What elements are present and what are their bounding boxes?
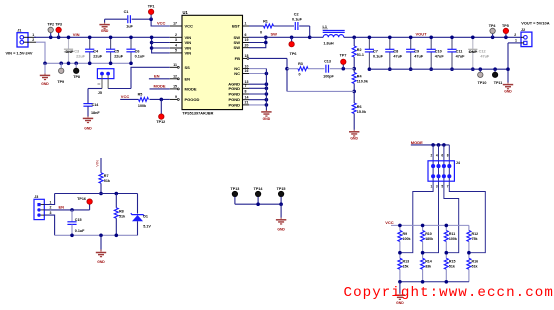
svg-text:2: 2 xyxy=(175,33,177,37)
svg-text:4: 4 xyxy=(436,153,438,157)
svg-text:22uF: 22uF xyxy=(114,54,124,58)
svg-text:R6: R6 xyxy=(357,105,362,109)
svg-text:VIN: VIN xyxy=(95,160,100,167)
svg-text:1: 1 xyxy=(50,200,52,204)
svg-text:PGND: PGND xyxy=(228,102,240,107)
svg-text:51k: 51k xyxy=(119,214,126,218)
svg-text:R2: R2 xyxy=(357,48,362,52)
svg-text:3: 3 xyxy=(50,211,52,215)
svg-text:TP8: TP8 xyxy=(73,75,80,79)
svg-text:3: 3 xyxy=(175,38,177,42)
svg-text:TP1: TP1 xyxy=(148,5,155,9)
svg-text:PGND: PGND xyxy=(228,92,240,97)
svg-text:J2: J2 xyxy=(521,28,525,32)
svg-text:TP12: TP12 xyxy=(156,120,165,124)
svg-text:VCC: VCC xyxy=(385,220,394,225)
svg-text:R1: R1 xyxy=(263,19,268,23)
svg-text:VCC: VCC xyxy=(157,21,166,26)
svg-text:1: 1 xyxy=(32,33,34,37)
svg-text:L1: L1 xyxy=(323,25,327,29)
svg-text:R11: R11 xyxy=(449,232,455,236)
svg-text:20: 20 xyxy=(245,43,249,47)
svg-text:VIN = 1.5V-24V: VIN = 1.5V-24V xyxy=(6,51,33,56)
svg-text:12: 12 xyxy=(173,75,177,79)
svg-text:5: 5 xyxy=(175,49,177,53)
svg-text:TP15: TP15 xyxy=(277,187,286,191)
svg-text:7: 7 xyxy=(245,84,247,88)
svg-text:J5: J5 xyxy=(98,91,102,95)
svg-text:18nF: 18nF xyxy=(91,111,100,115)
svg-text:18: 18 xyxy=(245,54,249,58)
svg-text:2: 2 xyxy=(32,38,34,42)
svg-text:15.0k: 15.0k xyxy=(357,110,367,114)
svg-text:4: 4 xyxy=(175,44,177,48)
svg-text:PGND: PGND xyxy=(228,86,240,91)
svg-text:0.1uF: 0.1uF xyxy=(135,54,146,58)
svg-text:1.8uH: 1.8uH xyxy=(323,41,334,45)
svg-text:R14: R14 xyxy=(425,260,432,264)
svg-text:C8: C8 xyxy=(393,49,398,53)
svg-text:NC: NC xyxy=(234,71,240,76)
svg-text:47uF: 47uF xyxy=(414,54,424,58)
svg-text:TP13: TP13 xyxy=(230,187,239,191)
svg-text:100k: 100k xyxy=(138,104,147,108)
svg-text:TPS51397ARJBR: TPS51397ARJBR xyxy=(182,111,213,115)
svg-text:R16: R16 xyxy=(472,260,479,264)
svg-text:100k: 100k xyxy=(403,237,411,241)
svg-text:15k: 15k xyxy=(403,265,409,269)
svg-text:47uF: 47uF xyxy=(456,54,466,58)
svg-text:1: 1 xyxy=(245,22,247,26)
svg-text:16: 16 xyxy=(245,69,249,73)
svg-text:R5: R5 xyxy=(138,93,143,97)
svg-text:TP4: TP4 xyxy=(489,24,497,28)
svg-text:C15: C15 xyxy=(75,218,82,222)
svg-text:14: 14 xyxy=(245,95,249,99)
svg-text:47uF: 47uF xyxy=(480,54,490,58)
svg-text:17: 17 xyxy=(173,22,177,26)
svg-text:2: 2 xyxy=(50,206,52,210)
svg-text:VCC: VCC xyxy=(185,24,194,29)
svg-text:EN: EN xyxy=(154,73,160,78)
svg-text:VOUT = 5V/10A: VOUT = 5V/10A xyxy=(521,20,549,25)
svg-text:VIN: VIN xyxy=(185,40,192,45)
svg-text:GND: GND xyxy=(277,227,285,231)
svg-text:GND: GND xyxy=(97,260,105,264)
svg-text:180k: 180k xyxy=(425,237,433,241)
svg-text:C1: C1 xyxy=(124,10,129,14)
svg-text:R8: R8 xyxy=(119,209,124,213)
svg-text:1: 1 xyxy=(431,184,433,188)
svg-text:R13: R13 xyxy=(403,260,410,264)
svg-text:1uF: 1uF xyxy=(126,25,133,29)
svg-text:5.1V: 5.1V xyxy=(143,224,151,228)
svg-text:GND: GND xyxy=(350,136,358,140)
svg-text:110.0k: 110.0k xyxy=(357,79,369,83)
svg-text:9: 9 xyxy=(175,95,177,99)
svg-text:2: 2 xyxy=(514,33,516,37)
svg-text:C11: C11 xyxy=(456,49,463,53)
svg-text:100pF: 100pF xyxy=(323,74,334,78)
svg-text:2: 2 xyxy=(431,153,433,157)
svg-text:TP14: TP14 xyxy=(254,187,264,191)
svg-text:51.1: 51.1 xyxy=(357,53,364,57)
svg-text:VCC: VCC xyxy=(121,94,130,99)
svg-text:C3: C3 xyxy=(74,49,79,53)
svg-text:0.1uF: 0.1uF xyxy=(75,229,85,233)
svg-text:C5: C5 xyxy=(114,49,119,53)
svg-text:C12: C12 xyxy=(479,49,486,53)
svg-text:R3: R3 xyxy=(298,62,303,66)
svg-text:8: 8 xyxy=(245,90,247,94)
svg-text:19: 19 xyxy=(245,38,249,42)
svg-text:C7: C7 xyxy=(373,49,378,53)
svg-text:7: 7 xyxy=(447,184,449,188)
svg-text:TP9: TP9 xyxy=(57,80,64,84)
svg-text:D1: D1 xyxy=(143,214,148,218)
svg-text:EN: EN xyxy=(185,76,191,81)
svg-text:TP6: TP6 xyxy=(290,52,297,56)
svg-text:0.1uF: 0.1uF xyxy=(373,54,384,58)
svg-text:21: 21 xyxy=(245,101,249,105)
svg-text:51k: 51k xyxy=(104,179,111,183)
svg-text:TP7: TP7 xyxy=(340,54,347,58)
svg-text:100k: 100k xyxy=(449,237,457,241)
svg-text:C13: C13 xyxy=(324,60,331,64)
svg-text:8: 8 xyxy=(447,153,449,157)
svg-text:GND: GND xyxy=(263,117,271,121)
svg-text:TP2: TP2 xyxy=(47,23,54,27)
svg-text:R15: R15 xyxy=(449,260,456,264)
svg-text:15: 15 xyxy=(173,85,177,89)
svg-text:SW: SW xyxy=(271,32,278,37)
svg-text:3: 3 xyxy=(436,184,438,188)
svg-text:R12: R12 xyxy=(472,232,479,236)
svg-text:0: 0 xyxy=(298,72,300,76)
svg-text:J1: J1 xyxy=(17,29,21,33)
svg-text:0: 0 xyxy=(260,30,262,34)
svg-text:10: 10 xyxy=(245,64,249,68)
svg-text:FB: FB xyxy=(235,56,240,61)
svg-text:C14: C14 xyxy=(92,103,100,107)
svg-text:GND: GND xyxy=(504,90,512,94)
svg-text:MODE: MODE xyxy=(411,140,423,145)
svg-text:R10: R10 xyxy=(425,232,432,236)
svg-text:U1: U1 xyxy=(183,10,189,15)
svg-text:75k: 75k xyxy=(472,237,478,241)
svg-text:DNP: DNP xyxy=(469,50,477,54)
svg-text:VOUT: VOUT xyxy=(416,32,428,37)
svg-text:MODE: MODE xyxy=(154,83,166,88)
svg-text:51k: 51k xyxy=(472,265,478,269)
svg-text:22uF: 22uF xyxy=(76,54,86,58)
svg-text:47uF: 47uF xyxy=(435,54,445,58)
svg-text:PGOOD: PGOOD xyxy=(185,97,200,102)
svg-text:DNP: DNP xyxy=(65,50,73,54)
svg-text:MODE: MODE xyxy=(185,86,197,91)
svg-text:47uF: 47uF xyxy=(393,54,403,58)
svg-text:6: 6 xyxy=(441,153,443,157)
svg-text:TP10: TP10 xyxy=(478,81,487,85)
svg-text:TP5: TP5 xyxy=(502,24,509,28)
svg-text:C2: C2 xyxy=(294,13,299,17)
svg-text:GND: GND xyxy=(101,29,109,33)
svg-text:C9: C9 xyxy=(414,49,419,53)
svg-text:VIN: VIN xyxy=(73,32,80,37)
svg-text:51k: 51k xyxy=(449,265,455,269)
svg-text:GND: GND xyxy=(396,301,404,305)
svg-text:R9: R9 xyxy=(403,232,408,236)
svg-text:C6: C6 xyxy=(135,49,140,53)
svg-text:GND: GND xyxy=(84,126,92,130)
svg-text:1: 1 xyxy=(515,39,517,43)
svg-text:33k: 33k xyxy=(425,265,431,269)
svg-text:5: 5 xyxy=(441,184,443,188)
svg-text:TP3: TP3 xyxy=(55,23,62,27)
svg-text:TP16: TP16 xyxy=(77,197,86,201)
svg-text:0.1uF: 0.1uF xyxy=(292,17,303,21)
svg-text:SW: SW xyxy=(234,45,241,50)
svg-text:22uF: 22uF xyxy=(93,54,103,58)
svg-text:VIN: VIN xyxy=(185,50,192,55)
svg-text:GND: GND xyxy=(41,82,49,86)
svg-text:TP11: TP11 xyxy=(494,81,503,85)
svg-text:EN: EN xyxy=(59,205,65,210)
svg-text:BST: BST xyxy=(232,24,241,29)
svg-text:Copyright:www.eccn.com: Copyright:www.eccn.com xyxy=(344,285,554,301)
svg-text:11: 11 xyxy=(173,63,177,67)
svg-text:C10: C10 xyxy=(435,49,442,53)
svg-text:R7: R7 xyxy=(104,174,109,178)
svg-text:SS: SS xyxy=(185,65,191,70)
svg-text:6: 6 xyxy=(245,33,247,37)
svg-text:J3: J3 xyxy=(34,195,38,199)
